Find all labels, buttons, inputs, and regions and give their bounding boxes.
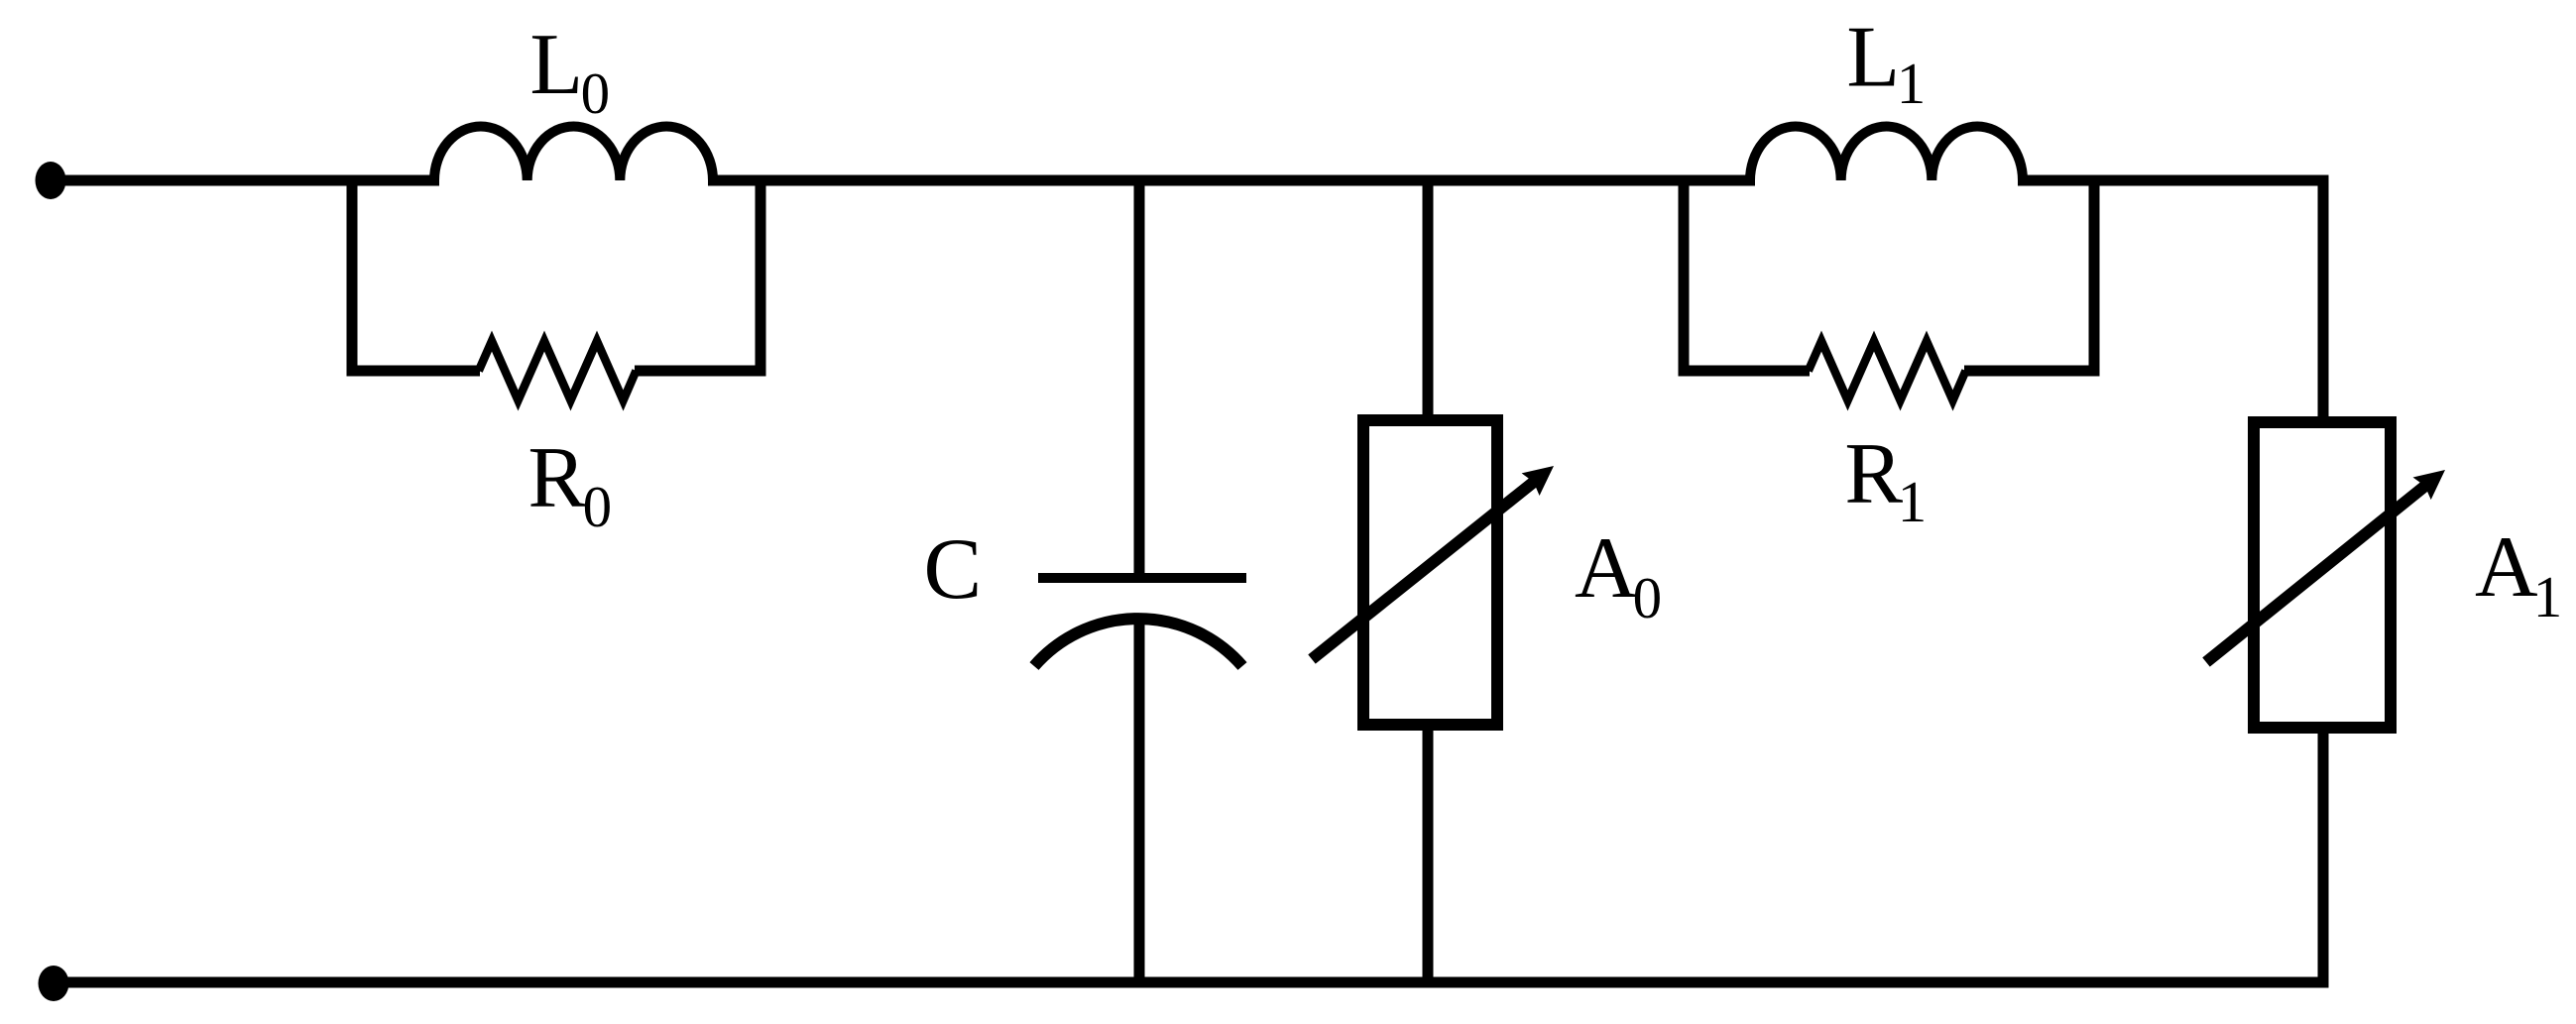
svg-text:0: 0 <box>583 474 613 539</box>
wire bottom rail <box>54 977 2329 988</box>
attenuator A1 box <box>2254 422 2391 728</box>
wire R0 left stub <box>347 175 358 376</box>
attenuator A0 arrow <box>1312 479 1538 660</box>
wire top rail right segment with corner down to A1 <box>2018 180 2323 425</box>
svg-text:R: R <box>1844 426 1903 522</box>
svg-text:A: A <box>1575 520 1638 617</box>
resistor R1 <box>1809 341 1966 400</box>
capacitor C top plate <box>1038 573 1246 583</box>
svg-text:0: 0 <box>1633 565 1663 630</box>
resistor R0 <box>479 341 637 400</box>
wire top rail left segment <box>51 175 439 186</box>
attenuator A0 box <box>1363 420 1497 725</box>
wire R1 branch right lead <box>1964 366 2100 377</box>
svg-text:0: 0 <box>581 60 611 126</box>
svg-text:1: 1 <box>2533 564 2563 629</box>
wire R0 branch right lead <box>635 366 766 377</box>
wire R0 branch left lead <box>347 366 481 377</box>
wire L1 right stub <box>2089 175 2100 376</box>
svg-text:1: 1 <box>1897 51 1927 116</box>
wire L1 left stub <box>1679 175 1690 376</box>
svg-text:A: A <box>2475 519 2538 616</box>
wire A1 bottom lead <box>2318 725 2329 988</box>
svg-text:1: 1 <box>1898 469 1928 534</box>
svg-text:L: L <box>529 17 583 113</box>
wire R0 right stub <box>756 175 766 376</box>
terminal dot top-left <box>36 162 66 199</box>
svg-text:R: R <box>527 430 586 526</box>
inductor L0 <box>434 126 713 180</box>
terminal dot bottom-left <box>39 966 69 1001</box>
wire capacitor C bottom lead <box>1134 615 1145 982</box>
svg-text:C: C <box>924 521 983 618</box>
wire R1 branch left lead <box>1679 366 1811 377</box>
wire capacitor C top lead <box>1134 180 1145 580</box>
capacitor C bottom plate (curved) <box>1034 619 1242 666</box>
attenuator A1 arrow <box>2206 483 2429 663</box>
wire A0 bottom lead <box>1423 722 1434 982</box>
wire A0 top lead <box>1423 180 1434 423</box>
inductor L1 <box>1750 126 2023 180</box>
wire top rail middle segment <box>708 175 1755 186</box>
svg-text:L: L <box>1846 10 1900 106</box>
